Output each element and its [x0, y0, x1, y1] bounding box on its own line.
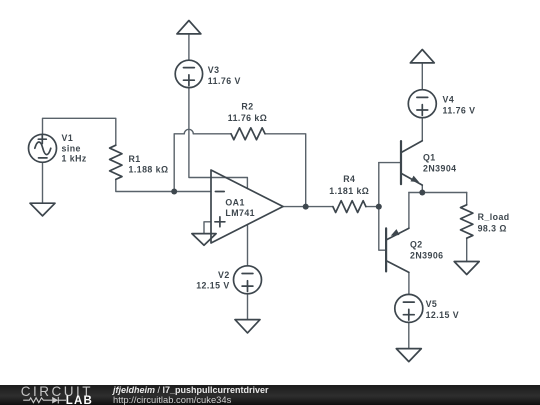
svg-text:V1: V1 — [62, 133, 74, 143]
svg-text:R1: R1 — [129, 154, 141, 164]
svg-text:R_load: R_load — [478, 212, 510, 222]
svg-text:sine: sine — [62, 143, 81, 153]
svg-text:Q1: Q1 — [423, 152, 436, 162]
svg-text:11.76 V: 11.76 V — [208, 76, 241, 86]
svg-text:1 kHz: 1 kHz — [62, 154, 87, 164]
svg-text:OA1: OA1 — [225, 197, 244, 207]
svg-text:LAB: LAB — [66, 394, 93, 404]
svg-text:12.15 V: 12.15 V — [426, 310, 459, 320]
svg-text:R2: R2 — [241, 102, 253, 112]
svg-text:2N3904: 2N3904 — [423, 164, 457, 174]
svg-text:98.3 Ω: 98.3 Ω — [478, 224, 507, 234]
svg-text:V4: V4 — [443, 94, 455, 104]
svg-text:R4: R4 — [343, 174, 355, 184]
svg-text:2N3906: 2N3906 — [410, 250, 444, 260]
svg-text:Q2: Q2 — [410, 239, 423, 249]
svg-text:11.76 V: 11.76 V — [443, 105, 476, 115]
svg-text:V2: V2 — [218, 270, 230, 280]
svg-text:V3: V3 — [208, 65, 220, 75]
svg-text:LM741: LM741 — [225, 208, 255, 218]
svg-text:1.181 kΩ: 1.181 kΩ — [329, 186, 369, 196]
svg-text:12.15 V: 12.15 V — [196, 281, 229, 291]
svg-text:V5: V5 — [426, 299, 438, 309]
svg-text:11.76 kΩ: 11.76 kΩ — [228, 113, 268, 123]
svg-text:1.188 kΩ: 1.188 kΩ — [129, 164, 169, 174]
